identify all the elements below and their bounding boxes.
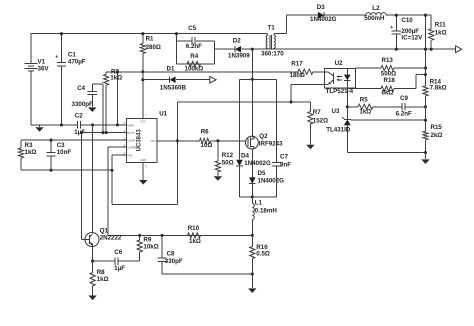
svg-text:180Ω: 180Ω	[290, 72, 305, 79]
ground (input)	[35, 127, 43, 132]
wire FB column	[176, 102, 178, 205]
svg-text:50Ω: 50Ω	[222, 160, 234, 167]
svg-text:6.2nF: 6.2nF	[396, 111, 412, 118]
ground (R15)	[421, 159, 429, 164]
svg-text:T1: T1	[268, 25, 276, 32]
svg-text:7.8kΩ: 7.8kΩ	[430, 84, 447, 91]
svg-text:Q1: Q1	[100, 227, 109, 234]
svg-text:1N4002G: 1N4002G	[310, 16, 337, 23]
svg-text:TLP521-4: TLP521-4	[326, 88, 354, 95]
svg-text:C8: C8	[167, 250, 175, 257]
ground (C4)	[88, 107, 96, 112]
resistor R4 100k	[187, 61, 201, 66]
resistor R18 6k	[347, 88, 381, 90]
svg-text:R11: R11	[435, 22, 447, 29]
svg-text:10Ω: 10Ω	[201, 142, 213, 149]
diode D1 1N5360B	[143, 79, 170, 81]
svg-text:470µF: 470µF	[68, 58, 86, 65]
ground (R7)	[306, 145, 314, 150]
svg-text:100kΩ: 100kΩ	[185, 65, 204, 72]
transformer T1 360:170	[266, 34, 267, 50]
resistor R6 10ohm	[200, 138, 211, 143]
wire U3 cathode tap	[351, 119, 426, 121]
svg-text:6.2nF: 6.2nF	[186, 43, 202, 50]
svg-text:2N2222: 2N2222	[100, 234, 122, 241]
wire comp bottom	[21, 169, 112, 171]
svg-text:R5: R5	[360, 97, 368, 104]
svg-text:C6: C6	[114, 249, 122, 256]
svg-text:R18: R18	[384, 77, 396, 84]
svg-text:5: 5	[145, 165, 147, 169]
wire base column	[81, 133, 83, 240]
wire opto emitter to FB node	[291, 83, 325, 85]
diode D2 1N3909	[234, 46, 236, 53]
capacitor C3 10nF	[50, 140, 52, 152]
svg-text:1kΩ: 1kΩ	[110, 75, 122, 82]
shunt regulator U3 TL431ID	[344, 118, 351, 120]
svg-text:R13: R13	[382, 57, 394, 64]
svg-text:C9: C9	[400, 95, 408, 102]
svg-text:C5: C5	[188, 25, 196, 32]
snubber loop wires	[176, 34, 178, 64]
wire OUT	[157, 140, 200, 142]
svg-text:C10: C10	[401, 17, 413, 24]
svg-text:152Ω: 152Ω	[313, 117, 328, 124]
diode D4 1N4002G	[236, 160, 243, 166]
wire collector column	[92, 125, 94, 233]
ground (R8)	[88, 296, 96, 301]
wire ground run	[31, 124, 78, 126]
wire top rail +36V	[31, 33, 268, 35]
svg-text:V1: V1	[38, 58, 46, 65]
svg-text:U1: U1	[159, 110, 167, 117]
svg-text:0.18mH: 0.18mH	[255, 208, 278, 215]
svg-text:1kΩ: 1kΩ	[359, 109, 371, 116]
svg-text:VCC: VCC	[141, 120, 147, 124]
wire sense	[108, 234, 252, 236]
wire VFB pin2	[112, 154, 126, 156]
svg-text:36V: 36V	[38, 65, 50, 72]
svg-text:R7: R7	[313, 109, 321, 116]
svg-text:L2: L2	[372, 5, 380, 12]
svg-text:10nF: 10nF	[57, 149, 72, 156]
wire drain column	[251, 49, 253, 79]
svg-text:330pF: 330pF	[165, 258, 183, 265]
ground (R12)	[214, 176, 222, 181]
svg-text:C2: C2	[75, 113, 83, 120]
ground (R16)	[248, 288, 256, 293]
capacitor C10 200uF IC=12V	[395, 15, 397, 30]
ground (U1)	[139, 180, 147, 185]
svg-text:2kΩ: 2kΩ	[431, 132, 443, 139]
inductor L2 500mH	[366, 13, 386, 16]
wire snubber to drain node	[214, 48, 234, 50]
svg-text:1N4002G: 1N4002G	[258, 178, 285, 185]
wire ISENSE pin3	[108, 146, 126, 148]
svg-text:VFB: VFB	[127, 154, 132, 158]
svg-text:GND: GND	[140, 158, 146, 162]
svg-text:Q2: Q2	[259, 133, 268, 140]
svg-text:R6: R6	[201, 128, 209, 135]
svg-text:D1: D1	[167, 66, 175, 73]
svg-text:1kΩ: 1kΩ	[25, 149, 37, 156]
svg-text:1kΩ: 1kΩ	[97, 276, 109, 283]
svg-text:R10: R10	[188, 225, 200, 232]
wire divider top feed	[425, 15, 427, 49]
svg-text:280Ω: 280Ω	[146, 44, 161, 51]
battery V1 36V	[30, 34, 32, 63]
wire drain split	[240, 78, 277, 80]
svg-text:360:170: 360:170	[261, 50, 284, 57]
capacitor C5 6.2nF	[191, 37, 193, 44]
svg-text:IRF9243: IRF9243	[259, 140, 283, 147]
svg-text:IC=12V: IC=12V	[401, 34, 423, 41]
capacitor C6 1uF	[93, 260, 115, 262]
wire secondary top	[274, 33, 287, 35]
capacitor C8 330pF	[161, 235, 163, 257]
output arrow connector	[456, 46, 462, 53]
svg-text:1kΩ: 1kΩ	[435, 30, 447, 37]
wire COMP pin1	[21, 139, 126, 141]
svg-text:1N4002G: 1N4002G	[244, 160, 271, 167]
wire RT/CT pin4	[82, 132, 127, 134]
svg-text:TL431ID: TL431ID	[326, 127, 351, 134]
svg-text:RT/CT: RT/CT	[127, 131, 135, 135]
svg-text:R4: R4	[190, 53, 198, 60]
wire VCC column	[142, 72, 144, 119]
svg-text:D3: D3	[317, 4, 325, 11]
svg-text:L1: L1	[255, 200, 263, 207]
svg-text:+: +	[55, 55, 58, 61]
resistor R17 180ohm	[298, 69, 313, 74]
svg-text:1N5360B: 1N5360B	[160, 84, 187, 91]
svg-text:7: 7	[145, 114, 147, 118]
capacitor C7 8nF	[272, 162, 281, 164]
resistor R8 1k	[92, 261, 94, 272]
svg-text:D4: D4	[241, 153, 249, 160]
svg-text:R1: R1	[146, 35, 154, 42]
svg-text:1µF: 1µF	[114, 265, 125, 272]
op-amp U1 UC3843 controller	[126, 118, 157, 162]
transistor Q1 2N2222	[85, 233, 99, 247]
svg-text:R12: R12	[222, 152, 234, 159]
wire LED cathode riser	[346, 88, 348, 119]
resistor R1 280ohm	[142, 34, 144, 44]
svg-text:C7: C7	[280, 154, 288, 161]
capacitor C1 470uF	[61, 34, 63, 63]
svg-text:+: +	[390, 25, 393, 31]
wire aux rail	[106, 71, 298, 73]
capacitor C4 3300pF	[92, 83, 103, 85]
resistor R13 500ohm	[356, 67, 381, 69]
wire U3 anode bottom	[347, 152, 425, 154]
resistor R15 2k	[423, 131, 428, 140]
wire power stage bottom	[240, 196, 277, 198]
resistor R2 1k	[105, 72, 107, 75]
svg-text:VREF: VREF	[127, 124, 134, 128]
svg-text:8nF: 8nF	[280, 161, 291, 168]
transistor Q2 IRF9243	[246, 136, 259, 149]
inductor L1 0.18mH	[251, 197, 253, 204]
resistor R11 1k	[430, 15, 432, 29]
wire aux to VREF tap	[117, 72, 119, 125]
svg-text:6kΩ: 6kΩ	[382, 90, 394, 97]
resistor R12 50ohm	[217, 141, 219, 161]
svg-text:OUT: OUT	[150, 139, 156, 143]
svg-text:10kΩ: 10kΩ	[143, 243, 158, 250]
svg-text:R8: R8	[97, 269, 105, 276]
svg-text:D2: D2	[233, 37, 241, 44]
wire VREF pin8	[81, 124, 126, 126]
svg-text:R15: R15	[431, 124, 443, 131]
resistor R7 152ohm	[309, 102, 311, 112]
svg-text:U3: U3	[332, 108, 340, 115]
capacitor C2 1uF	[76, 121, 78, 128]
resistor R9 10k	[139, 235, 141, 240]
diode D3 1N4002G	[318, 12, 324, 19]
arrow connector (D1 feed)	[210, 76, 216, 83]
resistor R10 1k	[188, 233, 201, 238]
svg-text:0.5Ω: 0.5Ω	[256, 251, 270, 258]
svg-text:1kΩ: 1kΩ	[189, 238, 201, 245]
capacitor C9 6.2nF	[401, 103, 403, 110]
resistor R3 1k	[20, 140, 22, 148]
svg-text:CURRENT: CURRENT	[127, 146, 140, 150]
optocoupler U2 TLP521-4	[325, 68, 356, 88]
svg-text:R17: R17	[291, 60, 303, 67]
svg-text:C4: C4	[77, 85, 85, 92]
svg-text:500mH: 500mH	[364, 15, 385, 22]
svg-text:U2: U2	[335, 60, 343, 67]
svg-text:C1: C1	[68, 51, 76, 58]
svg-text:COMP: COMP	[127, 139, 135, 143]
resistor R16 0.5ohm	[250, 247, 255, 259]
svg-text:D5: D5	[258, 170, 266, 177]
svg-text:3300pF: 3300pF	[72, 101, 94, 108]
diode D5 1N4002G	[249, 177, 256, 183]
resistor R14 7.8k divider column	[425, 49, 427, 86]
resistor R5 1k	[347, 106, 358, 108]
wire primary bottom / secondary return	[241, 48, 455, 50]
svg-text:1N3909: 1N3909	[228, 52, 250, 59]
